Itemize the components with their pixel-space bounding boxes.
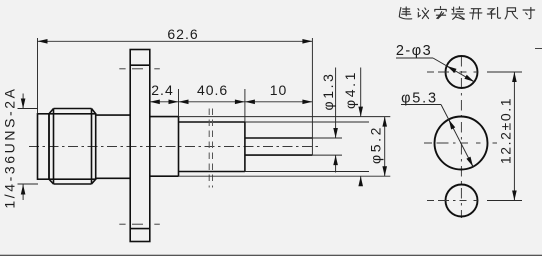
hex nut chamfers [49,109,96,185]
hidden dashed verticals in mid section [209,109,212,188]
dim phi1.3 [335,68,337,139]
dim 40.6 [179,101,245,103]
flange hole top centerline [119,68,160,70]
flange hole bottom edge [130,228,150,230]
dim 10 [245,101,313,103]
svg-text:φ4.1: φ4.1 [342,70,358,109]
char jian 建 [399,7,411,19]
svg-text:62.6: 62.6 [167,26,198,42]
bottom hole horizontal centerline [427,200,495,202]
bottom page edge [0,255,542,256]
top hole horizontal centerline [427,71,497,73]
svg-text:10: 10 [270,82,288,98]
dim 12.2+-0.1 extension lines [487,72,522,201]
thread callout ticks [18,109,39,185]
char kong 孔 [487,7,500,18]
svg-text:1/4-36UNS-2A: 1/4-36UNS-2A [2,86,18,208]
hole pattern: vertical centerline [460,56,462,218]
flange [130,50,150,242]
barrel between nut and flange [96,115,131,178]
center pin [245,138,313,155]
hex nut middle face [54,109,92,185]
char kai 开 [470,9,482,19]
dim phi4.1 extension lines [245,122,369,172]
dim phi5.2 extension lines [179,117,391,177]
dim phi1.3 extension lines [312,138,342,155]
svg-text:2.4: 2.4 [151,82,173,98]
char an 安 [435,7,446,19]
char zhuang 装 [452,7,465,20]
dim 62.6 extension lines [38,38,313,155]
dim 62.6 [38,40,313,42]
char chi 尺 [505,8,517,19]
svg-text:40.6: 40.6 [197,82,228,98]
flange hole bottom centerline [119,223,160,225]
dim phi5.2 [384,117,386,177]
middle hole circle phi5.3 [435,117,488,170]
stray dash right edge [535,48,542,50]
svg-text:12.2±0.1: 12.2±0.1 [498,97,514,164]
flange hole top edge [130,64,150,66]
front ring [38,114,50,179]
hex nut outer [49,114,96,179]
dim phi4.1 [360,68,362,117]
svg-text:2-φ3: 2-φ3 [396,43,432,59]
svg-text:φ5.2: φ5.2 [368,125,384,164]
middle hole horizontal centerline [424,142,499,144]
main centerline [29,146,319,148]
dim 12.2+-0.1 [513,72,515,201]
svg-text:φ1.3: φ1.3 [320,72,336,111]
char yi 议 [418,8,429,19]
dim 2.4 / 40.6 / 10 extension lines [179,89,245,122]
title CJK handdrawn 建议安装开孔尺寸 [399,7,534,20]
dim 2.4 [150,101,179,103]
char cun 寸 [523,7,535,18]
top hole circle 2-phi3 [446,56,478,88]
bottom hole circle [446,185,478,217]
thread callout arrows [22,94,24,109]
boss behind flange [150,117,179,177]
mid section body [179,122,245,172]
